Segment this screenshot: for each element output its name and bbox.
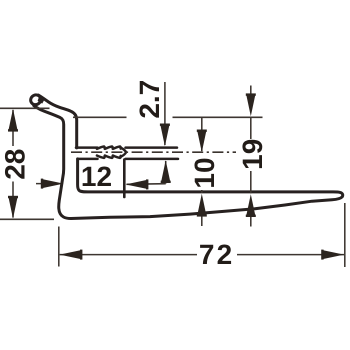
box right edge / extension of 12 dim bbox=[123, 160, 126, 198]
12 left arrow pointing right, tip at 63.6,183.6 bbox=[41, 179, 64, 189]
svg-text:72: 72 bbox=[199, 239, 235, 270]
arrowheads bbox=[8, 93, 344, 259]
hook upper band edge to wall inner line bbox=[38, 95, 76, 148]
svg-text:10: 10 bbox=[189, 157, 220, 188]
serration tip chevron bbox=[120, 148, 126, 157]
thin lines: extensions and dimension lines bbox=[0, 82, 345, 267]
28 dim: top ext, bottom ext, vertical line bbox=[0, 107, 50, 109]
2.7 up arrow tip at 165.7,160.2 bbox=[161, 160, 171, 183]
svg-text:12: 12 bbox=[81, 161, 112, 192]
72 right arrow pointing right, tip at 344,254.6 bbox=[321, 250, 344, 260]
72 dim line y=254.6 bbox=[60, 254, 197, 256]
12 dim line left part and right tail bbox=[36, 183, 53, 185]
bottom sawtooth scales bbox=[97, 156, 105, 158]
72 right ext line bbox=[344, 203, 346, 267]
top surface extension line y=117.3 bbox=[73, 116, 127, 118]
profile body outline: hook lower edge, wall left, blade bottom, tip, blade top, box bbox=[34, 95, 343, 218]
28 bottom arrow (down) tip at 13,218.6 bbox=[8, 196, 18, 219]
hook lower band edge, wall outer line, blade bottom, tip, blade top, screw-boss box bbox=[34, 106, 343, 219]
2.7 lower leader: up arrow tail, corner to 12 dim line bbox=[165, 161, 167, 184]
10 dim line x=201.8 bbox=[201, 117, 203, 151]
72 left arrow pointing left, tip at 59.6,254.6 bbox=[60, 250, 83, 260]
screw channel bottom line / box top line bbox=[78, 158, 178, 161]
19 up arrow tip at 250.8,194.2 bbox=[246, 194, 256, 217]
curl pinch (strip end) bbox=[38, 96, 45, 104]
28 top arrow (up) tip at 13,108.8 bbox=[8, 109, 18, 132]
2.7 down arrow tip at 164.9,146.3 bbox=[160, 124, 170, 147]
svg-text:19: 19 bbox=[237, 139, 268, 170]
12 right arrow pointing left, tip at 125.6,184.4 bbox=[126, 179, 149, 189]
72 left ext line bbox=[58, 227, 60, 267]
19 down arrow tip at 250.8,116.2 bbox=[246, 93, 256, 116]
2.7 dim vertical line bbox=[164, 82, 166, 145]
10 down arrow tip at 201.8,152.3 bbox=[197, 130, 207, 153]
center line dash-dot bbox=[71, 151, 236, 153]
hook curl loop: white eye with dark ring bbox=[29, 93, 45, 106]
screw channel top line bbox=[76, 146, 177, 149]
svg-text:2.7: 2.7 bbox=[134, 80, 165, 119]
curl eye (white hole with dark ring) bbox=[29, 93, 43, 106]
10 up arrow tip at 201.8,193.8 bbox=[197, 194, 207, 217]
19 dim line x=250.8 bbox=[250, 86, 252, 98]
svg-text:28: 28 bbox=[0, 149, 30, 180]
ribbed screw-channel serration: top sawtooth scales bbox=[97, 147, 105, 149]
